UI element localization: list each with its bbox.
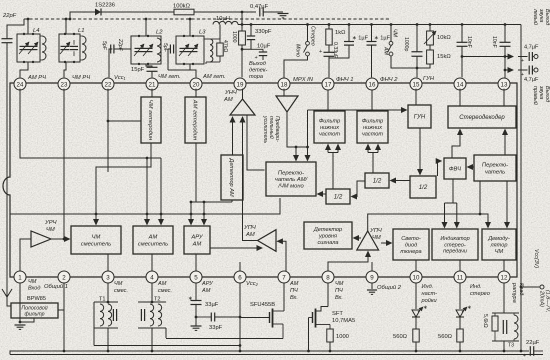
wire LPF2 feed a xyxy=(368,152,378,154)
svg-text:УНЧ: УНЧ xyxy=(224,90,237,96)
wire FM IF amp to demod rail xyxy=(368,214,488,231)
svg-text:13: 13 xyxy=(501,81,508,88)
svg-text:чатель АМ/: чатель АМ/ xyxy=(275,177,309,183)
svg-text:Общий 2: Общий 2 xyxy=(377,284,402,291)
svg-text:24: 24 xyxy=(17,81,24,88)
pin 8 xyxy=(322,271,334,283)
wire AM IF amp input from pin 7 xyxy=(277,241,286,271)
svg-text:∗: ∗ xyxy=(423,305,428,311)
block divider 1/2 A xyxy=(326,189,350,204)
wire pin 4 to AM mixer xyxy=(151,254,153,271)
wire pin 4 to T2 xyxy=(151,283,153,302)
svg-text:22µF: 22µF xyxy=(526,340,540,346)
block mode switch Переключатель АМ/ЧМ моно xyxy=(266,162,316,196)
wire SFT ground lead xyxy=(308,318,310,352)
svg-text:тюнера: тюнера xyxy=(400,249,421,255)
wire HPF up to stereo decoder xyxy=(452,130,460,159)
wire antenna to bandpass filter xyxy=(7,297,11,306)
pin 20 xyxy=(190,78,202,90)
svg-text:15pF: 15pF xyxy=(131,67,145,73)
wire pin 18 MPX to preamp xyxy=(283,89,285,96)
wire 1uF b to pin 16 xyxy=(371,45,373,77)
svg-text:АРУ: АРУ xyxy=(190,235,203,241)
svg-text:УПЧ: УПЧ xyxy=(369,228,382,234)
wire L1 to pin 23 xyxy=(64,62,66,77)
svg-text:+: + xyxy=(319,49,322,55)
svg-text:1S2236: 1S2236 xyxy=(95,3,115,9)
svg-text:Демоду-: Демоду- xyxy=(487,236,510,242)
svg-text:4: 4 xyxy=(150,274,154,281)
svg-text:сигнала: сигнала xyxy=(317,240,338,246)
svg-text:Инд.: Инд. xyxy=(470,284,482,290)
wire switch bottom to pin 18 xyxy=(284,56,308,78)
wire T3 to bus xyxy=(503,341,505,351)
op-amp УНЧ АМ (AM audio amp, triangle up) xyxy=(230,99,255,115)
svg-text:18: 18 xyxy=(281,81,288,88)
block FM demodulator Демодулятор ЧМ xyxy=(482,229,516,260)
svg-text:330pF: 330pF xyxy=(255,29,272,35)
wire AM audio amp out to pin 19 xyxy=(242,89,244,99)
svg-text:Vcc(3V): Vcc(3V) xyxy=(533,249,539,268)
wire AGC top feed b xyxy=(203,202,205,225)
block low pass filter 2 Фильтр нижних частот xyxy=(357,111,388,143)
ceramic filter SFU455B xyxy=(283,283,285,311)
svg-text:5pF: 5pF xyxy=(101,41,107,51)
svg-text:19: 19 xyxy=(237,81,244,88)
svg-text:стерео: стерео xyxy=(470,291,490,297)
junction dots in L1 tank xyxy=(64,33,66,35)
svg-text:10,7MA5: 10,7MA5 xyxy=(332,318,355,324)
wire detector output lead xyxy=(262,56,264,60)
svg-text:1kΩ: 1kΩ xyxy=(335,30,346,36)
wire L4 to AFC line xyxy=(27,19,29,34)
wire 1000 to bus xyxy=(329,342,331,351)
svg-text:Детектор: Детектор xyxy=(313,227,342,233)
wire 10nF b to pin 13 xyxy=(504,46,506,78)
wire filter bottom to ground node xyxy=(20,318,34,322)
svg-text:смес.: смес. xyxy=(114,288,128,294)
junction dots in L4 tank xyxy=(23,33,25,35)
wire pin 3 to T1 xyxy=(107,283,109,302)
wire pin 23 FM RF into IC xyxy=(63,89,65,239)
pin 19 xyxy=(234,78,246,90)
svg-text:7: 7 xyxy=(282,274,286,281)
wire pin 5 to AGC xyxy=(195,254,197,271)
svg-text:10nF: 10nF xyxy=(491,36,497,48)
wire LPF1 feed a xyxy=(328,152,338,154)
svg-text:22pF: 22pF xyxy=(2,13,17,19)
wire node joining AM det to AGC xyxy=(191,201,232,203)
svg-text:нижних: нижних xyxy=(320,125,339,131)
svg-text:ФНЧ 2: ФНЧ 2 xyxy=(380,77,398,83)
wire mono switch feed a xyxy=(295,147,297,161)
wire L4 to pin 24 xyxy=(20,62,28,77)
svg-text:Свето-: Свето- xyxy=(401,236,421,242)
block signal level detector Детектор уровня сигнала xyxy=(304,222,352,249)
wire AM detector bottom lead xyxy=(231,200,233,202)
svg-text:∗ 1µF: ∗ 1µF xyxy=(352,36,369,42)
svg-text:ЧМ: ЧМ xyxy=(114,281,123,287)
wire divider C to divider B xyxy=(391,180,411,182)
wire bus to vcc rail xyxy=(520,350,523,353)
svg-text:лятор: лятор xyxy=(490,242,508,248)
wire LPF2 feed b xyxy=(377,145,379,153)
pin 5 xyxy=(190,271,202,283)
wire pin 21 to FM oscillator xyxy=(151,89,153,97)
wire L2 bottom to 15pF xyxy=(146,64,152,67)
wire diode to resistor xyxy=(101,11,174,13)
svg-text:Детектор АМ: Детектор АМ xyxy=(228,157,234,197)
wire switch down lead b xyxy=(479,181,481,214)
wire T1 left rail xyxy=(93,302,95,346)
wire stereo indicator feed b xyxy=(456,203,458,228)
svg-text:33pF: 33pF xyxy=(209,325,223,331)
svg-text:2: 2 xyxy=(62,274,66,281)
wire band switch top to rail xyxy=(390,25,392,42)
pin 16 xyxy=(366,78,378,90)
svg-text:Стерео: Стерео xyxy=(310,26,316,46)
svg-text:4,7µF: 4,7µF xyxy=(524,45,539,51)
svg-text:11: 11 xyxy=(457,274,464,281)
wire 15k to pin15 node xyxy=(417,64,430,68)
svg-text:Вход: Вход xyxy=(28,286,40,292)
block high pass filter ФВЧ xyxy=(444,158,466,179)
svg-text:22pF: 22pF xyxy=(117,38,123,52)
svg-text:АМ: АМ xyxy=(223,97,233,103)
svg-text:15kΩ: 15kΩ xyxy=(437,54,451,60)
wire AGC to AM IF amp xyxy=(210,247,262,249)
junction dots in L2 tank xyxy=(138,35,140,37)
svg-text:33µF: 33µF xyxy=(205,302,219,308)
wire branch to AM mixer input a xyxy=(146,158,148,225)
svg-text:УПЧ: УПЧ xyxy=(243,225,256,231)
svg-text:16: 16 xyxy=(369,81,376,88)
svg-text:21: 21 xyxy=(149,81,156,88)
svg-text:L1: L1 xyxy=(78,28,84,34)
svg-text:Полосовой: Полосовой xyxy=(21,304,47,311)
wire divider B to divider A xyxy=(352,181,366,197)
wire 1uF a to pin17 line xyxy=(329,45,349,58)
wire to bus xyxy=(459,342,461,351)
wire to bus xyxy=(415,342,417,351)
svg-text:Переклю-: Переклю- xyxy=(482,163,508,169)
svg-text:частот: частот xyxy=(319,131,341,137)
svg-text:+: + xyxy=(523,353,526,359)
wire 1000p to pin 15 xyxy=(416,57,418,78)
wire L3 tap to AFC line xyxy=(189,19,191,36)
svg-text:передачи: передачи xyxy=(443,249,467,255)
svg-text:∗ 1µF: ∗ 1µF xyxy=(374,36,391,42)
svg-text:наст-: наст- xyxy=(422,291,438,297)
junction dots on AGC rail xyxy=(95,213,98,216)
capacitor in T3 xyxy=(502,320,504,334)
pin 23 xyxy=(58,78,70,90)
pin 11 xyxy=(454,271,466,283)
svg-text:560Ω: 560Ω xyxy=(438,334,453,340)
svg-text:Вх.: Вх. xyxy=(335,295,343,301)
svg-text:560Ω: 560Ω xyxy=(393,334,408,340)
svg-text:ПЧ: ПЧ xyxy=(335,288,343,294)
wire Vcc supply right rail xyxy=(520,25,522,352)
wire FM oscillator to FM mixer xyxy=(96,143,151,225)
svg-text:8: 8 xyxy=(326,274,330,281)
svg-text:9: 9 xyxy=(370,274,374,281)
pin 15 xyxy=(410,78,422,90)
block FM local oscillator ЧМ гетеродин xyxy=(141,97,161,143)
wire stereo decoder to pin 14 xyxy=(459,89,461,106)
wire pin 1 down xyxy=(19,283,21,322)
svg-text:ФНЧ 1: ФНЧ 1 xyxy=(336,77,354,83)
svg-text:Инд.: Инд. xyxy=(422,284,434,290)
svg-text:3: 3 xyxy=(106,274,110,281)
svg-text:22: 22 xyxy=(105,81,112,88)
wire cap to ground xyxy=(263,11,283,13)
svg-text:ЧМ: ЧМ xyxy=(46,227,55,233)
svg-text:диод: диод xyxy=(405,242,417,248)
block bandpass filter Полосовой фильтр xyxy=(11,303,58,318)
wire pilot line to VCO xyxy=(308,109,407,111)
svg-text:тельный: тельный xyxy=(268,116,275,139)
wire AGC top feed a xyxy=(190,202,192,225)
wire divider B to LPF2 xyxy=(372,153,374,174)
svg-text:Стереодекодер: Стереодекодер xyxy=(459,115,505,121)
svg-text:ЧМ РЧ: ЧМ РЧ xyxy=(72,75,90,81)
wire L2 tap to AFC line xyxy=(145,19,147,36)
svg-text:L3: L3 xyxy=(199,30,206,36)
wire switch to HPF xyxy=(468,166,475,168)
svg-text:Т3: Т3 xyxy=(508,343,514,349)
svg-text:АМ: АМ xyxy=(289,281,299,287)
wire pin 1 to FM RF amp input xyxy=(20,239,31,271)
svg-text:фильтр: фильтр xyxy=(24,311,44,317)
svg-text:1/2: 1/2 xyxy=(373,178,382,185)
svg-text:100kΩ: 100kΩ xyxy=(173,4,191,10)
block AM detector Детектор АМ xyxy=(221,155,243,200)
wire pin 17 to LPF1 xyxy=(327,90,329,111)
wire T1 rail bus xyxy=(94,345,240,347)
wire pin 3 to FM mixer xyxy=(107,254,109,271)
block AM mixer АМ смеситель xyxy=(133,226,173,254)
wire T2 secondary to AM filter line xyxy=(165,328,167,338)
svg-text:12: 12 xyxy=(501,274,508,281)
wire diode left to AFC line xyxy=(70,12,95,19)
ground bus main xyxy=(20,350,529,352)
svg-text:АМ гетеродин: АМ гетеродин xyxy=(191,99,197,141)
wire pin 6 to ground bus xyxy=(239,283,241,351)
svg-text:усилитель: усилитель xyxy=(262,115,268,143)
pin 4 xyxy=(146,271,158,283)
pin 9 xyxy=(366,271,378,283)
wire pin 12 to FM demodulator xyxy=(503,260,505,271)
IC body U1 (24-pin radio chip outline with index notch) xyxy=(3,83,517,277)
svg-text:14: 14 xyxy=(457,81,464,88)
block tuner LED driver Светодиод тюнера xyxy=(393,229,429,260)
wire AM IF amp to AM audio amp xyxy=(243,117,258,241)
svg-text:∗: ∗ xyxy=(467,305,472,311)
ground at AGC xyxy=(191,325,202,327)
svg-text:ГУН: ГУН xyxy=(414,115,426,121)
svg-text:АМ: АМ xyxy=(148,235,158,241)
svg-text:L2: L2 xyxy=(156,30,163,36)
wire T1 bottom to bus xyxy=(107,328,109,351)
wire pin 2 to ground bus xyxy=(63,283,65,351)
pin 13 xyxy=(498,78,510,90)
svg-text:чатель: чатель xyxy=(485,169,505,175)
wire LPF1 feed b xyxy=(337,145,339,153)
wire switch top to rail xyxy=(307,25,309,42)
ceramic filter SFT 10,7MA5 xyxy=(316,307,328,312)
wire AM detector to AM audio amp xyxy=(232,117,234,155)
wire rail up to 10uH line xyxy=(219,25,221,40)
wire pin 15 to VCO xyxy=(415,89,417,105)
block divider 1/2 B xyxy=(365,173,389,188)
wire filter to pin 2 line xyxy=(58,309,64,311)
wire 330pF to pin19 node xyxy=(242,40,251,50)
wire stereo indicator feed a xyxy=(444,203,446,228)
wire 33uF to node xyxy=(195,305,197,327)
pin 24 xyxy=(14,78,26,90)
pin 14 xyxy=(454,78,466,90)
svg-text:стерео-: стерео- xyxy=(444,242,466,248)
block stereo indicator Индикатор стерео-передачи xyxy=(432,229,478,260)
svg-text:/ЧМ моно: /ЧМ моно xyxy=(277,184,304,190)
svg-text:Vcc₁: Vcc₁ xyxy=(114,75,126,81)
svg-text:6: 6 xyxy=(238,274,242,281)
svg-text:смес.: смес. xyxy=(158,288,172,294)
wire FM RF amp to FM mixer xyxy=(51,238,70,240)
svg-text:5: 5 xyxy=(194,274,198,281)
svg-text:20mA): 20mA) xyxy=(539,290,545,307)
svg-text:АМ гет.: АМ гет. xyxy=(202,74,226,80)
svg-text:смеситель: смеситель xyxy=(138,241,168,247)
wire right audio out xyxy=(505,69,513,71)
wire switch up to stereo decoder xyxy=(504,130,506,156)
wire 10nF a to pin 14 xyxy=(461,46,463,77)
svg-text:Моно: Моно xyxy=(295,44,301,57)
wire AFC dashed control line xyxy=(24,18,391,20)
wire AM IF link xyxy=(166,338,283,340)
wire switch down to demod xyxy=(506,181,508,228)
pin 1 xyxy=(14,271,26,283)
wire pin 6 Vcc2 into IC xyxy=(239,262,241,271)
svg-text:левый: левый xyxy=(532,8,539,25)
svg-text:1/2: 1/2 xyxy=(419,184,428,191)
block switch Переключатель xyxy=(474,155,516,181)
wire L1 to AFC line xyxy=(65,19,67,34)
svg-text:частот: частот xyxy=(362,131,384,137)
svg-text:SFT: SFT xyxy=(332,311,343,317)
wire FM IF amp to level detector xyxy=(354,237,362,239)
svg-text:детек-: детек- xyxy=(249,68,268,74)
svg-text:Выход: Выход xyxy=(249,61,266,67)
svg-text:Индикатор: Индикатор xyxy=(440,236,469,242)
svg-text:ЧМ: ЧМ xyxy=(495,249,504,255)
wire pin 22 Vcc1 into IC xyxy=(107,89,109,172)
coil in T3 xyxy=(514,315,518,339)
wire band switch bottom to pin15 node xyxy=(391,56,417,68)
wire FM IF amp to tuner LED xyxy=(381,242,392,244)
wire pin 24 AM RF into IC xyxy=(20,89,161,158)
svg-text:BPW85: BPW85 xyxy=(27,296,46,302)
svg-text:1000: 1000 xyxy=(336,334,349,340)
svg-text:нижних: нижних xyxy=(363,125,382,131)
ground at pin 9 xyxy=(371,283,373,289)
block FM mixer ЧМ смеситель xyxy=(71,226,121,254)
svg-text:ЧМ: ЧМ xyxy=(28,279,37,285)
op-amp preamplifier Предварительный усилитель (triangle down) xyxy=(276,96,298,112)
svg-text:АМ: АМ xyxy=(157,281,167,287)
antenna xyxy=(2,289,12,297)
block low pass filter 1 Фильтр нижних частот xyxy=(314,111,345,143)
wire left audio out xyxy=(462,56,513,58)
svg-text:ГУН: ГУН xyxy=(423,76,435,82)
terminal Vcc xyxy=(540,285,544,289)
wire pin 8 to FM IF amp xyxy=(328,252,368,272)
block AM local oscillator АМ гетеродин xyxy=(185,97,206,143)
pin 18 xyxy=(278,78,290,90)
svg-text:ЧМ: ЧМ xyxy=(372,235,381,241)
svg-text:10kΩ: 10kΩ xyxy=(437,35,451,41)
svg-text:ПЧ: ПЧ xyxy=(290,288,298,294)
wire pin 16 to LPF2 xyxy=(371,90,373,111)
svg-text:Фильтр: Фильтр xyxy=(362,119,383,125)
svg-text:SFU455B: SFU455B xyxy=(250,302,275,308)
pin 22 xyxy=(102,78,114,90)
wire T2 bottom to bus xyxy=(151,328,153,351)
svg-text:АРУ: АРУ xyxy=(201,281,214,287)
op-amp УПЧ АМ (AM IF amp, triangle left) xyxy=(258,230,277,252)
pin 3 xyxy=(102,271,114,283)
block divider 1/2 C xyxy=(410,176,436,198)
svg-text:Вх.: Вх. xyxy=(290,295,298,301)
block AM AGC АРУ АМ xyxy=(184,226,210,254)
wire 10uH to vcc rail xyxy=(238,24,242,26)
wire 5pF-L3 lead xyxy=(168,49,170,70)
block stereo decoder Стереодекодер xyxy=(448,106,516,128)
coil at L3 secondary xyxy=(210,39,213,62)
wire Vcc1 branch to FM oscillator xyxy=(108,120,141,122)
wire AM oscillator to AGC xyxy=(195,143,197,202)
svg-text:10µF: 10µF xyxy=(257,44,271,50)
wire VCO to divider C xyxy=(419,128,421,175)
wire resistor to pin 19 xyxy=(241,45,243,77)
wire vcc top rail xyxy=(242,24,521,26)
pin 7 xyxy=(278,271,290,283)
wire Vcc terminal jog xyxy=(521,286,540,288)
wire pin 8 down xyxy=(327,283,329,307)
block VCO ГУН xyxy=(408,105,431,128)
svg-text:АМ: АМ xyxy=(192,241,202,247)
svg-text:ройки: ройки xyxy=(421,297,437,304)
svg-text:1000p: 1000p xyxy=(403,37,409,52)
wire divider C to HPF xyxy=(438,161,442,176)
pin 21 xyxy=(146,78,158,90)
svg-text:АМ: АМ xyxy=(383,46,389,55)
pin 6 xyxy=(234,271,246,283)
ground after 0,47µF xyxy=(278,13,289,15)
wire 0,33uF to pin 17 xyxy=(328,56,330,77)
wire stereo indicator feed rail xyxy=(445,202,457,204)
op-amp УРЧ ЧМ (FM RF amp, triangle right) xyxy=(31,231,51,247)
pin 12 xyxy=(498,271,510,283)
wire internal AGC rail xyxy=(11,198,281,214)
pin 17 xyxy=(322,78,334,90)
svg-text:20: 20 xyxy=(193,81,200,88)
svg-text:ЧМ гет.: ЧМ гет. xyxy=(158,74,181,80)
svg-text:правый: правый xyxy=(532,86,539,105)
junction dots in L3 tank xyxy=(183,35,185,37)
ground at pin 1 xyxy=(15,324,26,326)
